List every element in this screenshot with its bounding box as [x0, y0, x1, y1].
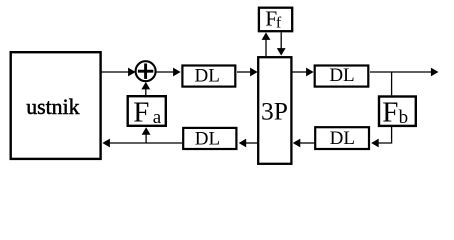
svg-text:a: a: [153, 107, 162, 128]
wire summer to DL1: [157, 68, 181, 77]
wire DL2 to output: [370, 68, 438, 77]
block DL4 (delay line, bottom left): [183, 128, 236, 149]
wire DL3 to 3P: [293, 139, 315, 148]
svg-text:f: f: [276, 14, 282, 31]
svg-text:ustnik: ustnik: [26, 95, 79, 119]
wire 3P to F_f (up): [262, 32, 271, 56]
svg-text:DL: DL: [195, 128, 220, 149]
svg-text:DL: DL: [330, 128, 355, 149]
wire DL1 to 3P: [237, 68, 258, 77]
block DL3 (delay line, bottom right): [315, 127, 369, 149]
block DL2 (delay line, top right): [315, 65, 369, 86]
svg-text:DL: DL: [195, 65, 220, 86]
block ustnik: [11, 52, 101, 159]
wire 3P to DL4: [239, 139, 258, 148]
block F_a: [128, 96, 166, 128]
wire junction up to F_a: [142, 127, 151, 143]
wire F_b to DL3: [371, 127, 391, 147]
wire F_f to 3P (down): [277, 32, 286, 55]
wire DL4 to ustnik (with junction to F_a): [102, 139, 182, 148]
summing junction: [136, 61, 156, 81]
block DL1 (delay line, top left): [182, 65, 235, 86]
block F_f: [259, 7, 292, 32]
svg-text:DL: DL: [329, 65, 354, 86]
wire 3P to DL2: [292, 68, 314, 77]
wire junction drop to F_b: [391, 72, 393, 95]
svg-text:F: F: [133, 96, 149, 128]
wire F_a to summer (up): [141, 82, 150, 95]
block 3P: [258, 57, 291, 164]
wire ustnik to summer: [101, 68, 136, 77]
block F_b: [379, 96, 416, 128]
svg-text:3P: 3P: [261, 97, 288, 126]
svg-text:b: b: [399, 107, 409, 128]
svg-text:F: F: [382, 96, 398, 128]
